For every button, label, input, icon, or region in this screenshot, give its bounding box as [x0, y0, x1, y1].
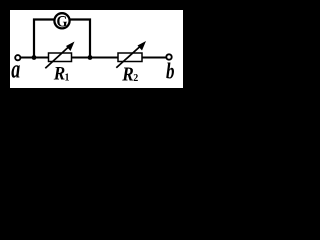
svg-text:G: G: [57, 13, 68, 30]
svg-text:2: 2: [133, 73, 138, 84]
R2 wiper arrow: [116, 41, 146, 68]
wire: terminal a to R1: [20, 57, 49, 59]
wire: R2 to terminal b: [142, 57, 167, 59]
R1 wiper arrow: [45, 42, 74, 69]
wire: R1 to R2: [71, 57, 119, 59]
svg-text:1: 1: [65, 72, 70, 83]
svg-text:R: R: [53, 64, 65, 85]
terminal b (open circle): [166, 54, 171, 59]
svg-text:R: R: [121, 64, 133, 86]
wire: galvanometer parallel branch (left up, top, right down): [34, 20, 90, 58]
resistor R2 (rheostat box): [118, 53, 142, 62]
node: junction left of R1: [32, 55, 37, 60]
resistor R1 (rheostat box): [49, 53, 72, 62]
terminal a (open circle): [15, 55, 20, 60]
black frame background: [0, 0, 196, 94]
white schematic area: [10, 10, 183, 88]
node: junction right of R1: [88, 55, 93, 60]
svg-text:a: a: [11, 54, 20, 83]
galvanometer G: [54, 13, 69, 30]
svg-text:b: b: [166, 59, 175, 84]
